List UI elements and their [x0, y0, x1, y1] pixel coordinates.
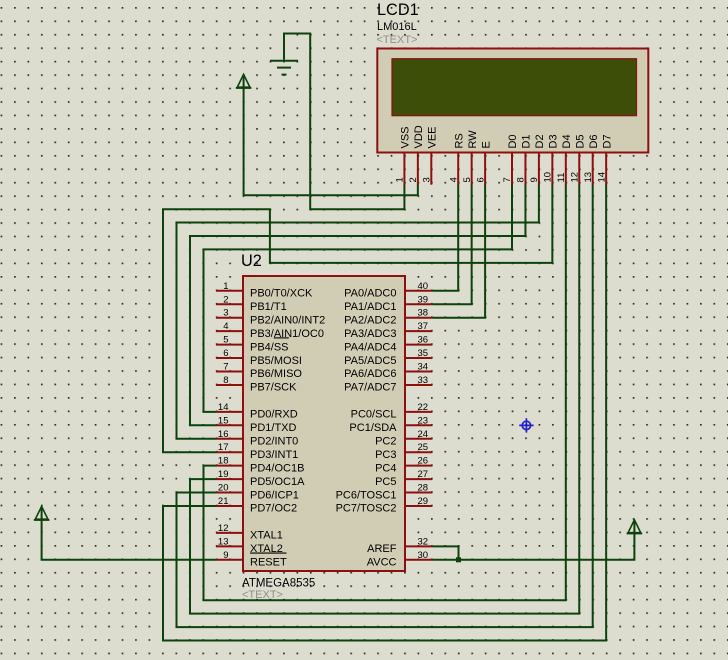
U2 pin 19 (PD5/OC1A)	[216, 469, 305, 488]
U2 pin 39 (PA1/ADC1)	[344, 294, 432, 313]
wire D0: LCD pin7 to PD0	[204, 184, 513, 412]
svg-text:24: 24	[418, 429, 429, 440]
U2 pin 25 (PC3)	[375, 442, 432, 461]
svg-text:16: 16	[218, 429, 229, 440]
wire E: LCD pin6 to PA2	[432, 184, 485, 318]
svg-text:RW: RW	[467, 130, 479, 149]
LCD pin 4 (RS)	[448, 133, 465, 184]
svg-text:<TEXT>: <TEXT>	[242, 589, 283, 601]
LCD pin 6 (E)	[475, 141, 492, 185]
svg-text:PC4: PC4	[375, 462, 396, 474]
LCD pin 14 (D7)	[596, 134, 613, 184]
svg-text:PD0/RXD: PD0/RXD	[250, 409, 298, 421]
svg-text:4: 4	[448, 177, 459, 182]
svg-text:32: 32	[418, 536, 429, 547]
U2 pin 34 (PA6/ADC6)	[344, 362, 432, 381]
U2 pin 24 (PC2)	[375, 429, 432, 448]
LCD pin 3 (VEE)	[422, 126, 439, 184]
U2 pin 16 (PD2/INT0)	[216, 429, 298, 448]
svg-text:1: 1	[223, 281, 228, 292]
svg-text:8: 8	[223, 375, 228, 386]
svg-text:LM016L: LM016L	[377, 21, 417, 33]
svg-text:LCD1: LCD1	[377, 1, 419, 19]
svg-text:22: 22	[418, 402, 429, 413]
svg-text:39: 39	[418, 294, 429, 305]
U2 pin 21 (PD7/OC2)	[216, 496, 297, 515]
U2 pin 6 (PB5/MOSI)	[216, 348, 302, 367]
U2 pin 33 (PA7/ADC7)	[344, 375, 432, 394]
svg-text:21: 21	[218, 496, 229, 507]
wire D5: LCD pin12 to PD5	[190, 184, 579, 613]
svg-text:38: 38	[418, 308, 429, 319]
svg-text:U2: U2	[241, 252, 262, 270]
svg-text:30: 30	[418, 550, 429, 561]
svg-text:PB2/AIN0/INT2: PB2/AIN0/INT2	[250, 314, 325, 326]
LCD pin 8 (D1)	[516, 134, 533, 184]
svg-text:20: 20	[218, 483, 229, 494]
svg-text:29: 29	[418, 496, 429, 507]
op-amp-none: microcontroller U2 ATMEGA8535 body	[243, 276, 405, 571]
LCD pin 5 (RW)	[462, 130, 479, 185]
svg-text:12: 12	[569, 172, 580, 183]
wire D6: LCD pin13 to PD6	[177, 184, 593, 627]
U2 pin 20 (PD6/ICP1)	[216, 483, 299, 502]
svg-text:PD4/OC1B: PD4/OC1B	[250, 462, 304, 474]
wire RESET to power terminal	[42, 520, 216, 560]
U2 pin 28 (PC6/TOSC1)	[336, 483, 433, 502]
U2 pin 14 (PD0/RXD)	[216, 402, 298, 421]
svg-text:AVCC: AVCC	[367, 557, 397, 569]
svg-text:RESET: RESET	[250, 557, 287, 569]
svg-text:10: 10	[543, 172, 554, 183]
junction dot (AREF/AVCC)	[456, 557, 461, 562]
svg-text:VEE: VEE	[427, 126, 439, 148]
U2 pin 29 (PC7/TOSC2)	[336, 496, 433, 515]
LCD pin 1 (VSS)	[395, 126, 412, 184]
svg-text:15: 15	[218, 415, 229, 426]
U2 pin 22 (PC0/SCL)	[351, 402, 433, 421]
U2 pin 3 (PB2/AIN0/INT2)	[216, 308, 325, 327]
U2 pin 7 (PB6/MISO)	[216, 362, 302, 381]
U2 pin 23 (PC1/SDA)	[349, 415, 432, 434]
power terminal (bottom right)	[627, 520, 643, 534]
svg-text:XTAL1: XTAL1	[250, 530, 283, 542]
svg-text:<TEXT>: <TEXT>	[377, 34, 418, 46]
svg-text:D0: D0	[507, 134, 519, 148]
svg-text:7: 7	[223, 362, 228, 373]
svg-text:PC3: PC3	[375, 449, 396, 461]
svg-text:6: 6	[223, 348, 228, 359]
svg-text:26: 26	[418, 456, 429, 467]
svg-text:7: 7	[502, 177, 513, 182]
U2 pin 35 (PA5/ADC5)	[344, 348, 432, 367]
U2 pin 5 (PB4/SS)	[216, 335, 289, 354]
svg-text:PD2/INT0: PD2/INT0	[250, 435, 298, 447]
U2 pin 37 (PA3/ADC3)	[344, 321, 432, 340]
svg-text:D6: D6	[588, 134, 600, 148]
wire D2: LCD pin9 to PD2	[177, 184, 539, 439]
svg-text:6: 6	[475, 177, 486, 182]
svg-text:PC2: PC2	[375, 435, 396, 447]
wire RS: LCD pin4 to PA0	[432, 184, 458, 291]
U2 pin 27 (PC5)	[375, 469, 432, 488]
wire D7: LCD pin14 to PD7	[163, 184, 606, 640]
svg-text:PA4/ADC4: PA4/ADC4	[344, 341, 396, 353]
LCD LCD1 LM016L body	[377, 49, 648, 153]
U2 pin 36 (PA4/ADC4)	[344, 335, 432, 354]
svg-text:PA5/ADC5: PA5/ADC5	[344, 355, 396, 367]
svg-text:11: 11	[556, 173, 567, 183]
U2 pin 30 (AVCC)	[367, 550, 433, 569]
LCD pin 13 (D6)	[583, 134, 600, 184]
power terminal VCC (top left)	[236, 74, 252, 88]
svg-text:PB5/MOSI: PB5/MOSI	[250, 355, 302, 367]
svg-text:1: 1	[395, 177, 406, 182]
svg-text:23: 23	[418, 415, 429, 426]
svg-text:37: 37	[418, 321, 429, 332]
svg-text:28: 28	[418, 483, 429, 494]
svg-text:5: 5	[462, 177, 473, 182]
svg-text:13: 13	[583, 172, 594, 183]
wire AREF to AVCC junction	[432, 546, 458, 559]
svg-text:PC6/TOSC1: PC6/TOSC1	[336, 489, 397, 501]
svg-text:2: 2	[223, 294, 228, 305]
svg-text:9: 9	[223, 550, 228, 561]
U2 pin 26 (PC4)	[375, 456, 432, 475]
svg-text:PD5/OC1A: PD5/OC1A	[250, 476, 305, 488]
svg-text:PC5: PC5	[375, 476, 396, 488]
svg-text:PA2/ADC2: PA2/ADC2	[344, 314, 396, 326]
U2 pin 18 (PD4/OC1B)	[216, 456, 304, 475]
origin marker (blue crosshair)	[519, 418, 533, 432]
svg-text:PB1/T1: PB1/T1	[250, 301, 287, 313]
svg-text:PA3/ADC3: PA3/ADC3	[344, 328, 396, 340]
svg-text:13: 13	[218, 536, 229, 547]
svg-text:E: E	[480, 141, 492, 148]
svg-text:3: 3	[223, 308, 228, 319]
svg-text:PA1/ADC1: PA1/ADC1	[344, 301, 396, 313]
svg-text:PD3/INT1: PD3/INT1	[250, 449, 298, 461]
svg-text:D5: D5	[574, 134, 586, 148]
LCD pin 10 (D3)	[543, 134, 560, 184]
svg-text:D1: D1	[521, 134, 533, 148]
svg-text:18: 18	[218, 456, 229, 467]
svg-text:PB6/MISO: PB6/MISO	[250, 368, 302, 380]
svg-text:PA6/ADC6: PA6/ADC6	[344, 368, 396, 380]
U2 pin 1 (PB0/T0/XCK)	[216, 281, 313, 300]
svg-text:9: 9	[529, 177, 540, 182]
svg-text:3: 3	[422, 177, 433, 182]
wire D1: LCD pin8 to PD1	[190, 184, 525, 425]
svg-text:34: 34	[418, 362, 429, 373]
svg-text:PA0/ADC0: PA0/ADC0	[344, 288, 396, 300]
svg-text:PC1/SDA: PC1/SDA	[349, 422, 397, 434]
svg-text:PD1/TXD: PD1/TXD	[250, 422, 297, 434]
wire AVCC to power terminal (bottom right)	[432, 534, 634, 560]
LCD pin 9 (D2)	[529, 134, 546, 184]
power terminal (bottom left)	[34, 506, 50, 520]
svg-text:14: 14	[596, 172, 607, 183]
svg-text:D4: D4	[561, 134, 573, 148]
svg-text:D2: D2	[534, 134, 546, 148]
svg-text:D7: D7	[601, 134, 613, 148]
svg-text:5: 5	[223, 335, 228, 346]
wire RW: LCD pin5 to PA1	[432, 184, 471, 304]
U2 pin 9 (RESET)	[216, 550, 287, 569]
svg-text:PB0/T0/XCK: PB0/T0/XCK	[250, 288, 313, 300]
wire D3: LCD pin10 to PD3	[163, 184, 552, 452]
U2 pin 38 (PA2/ADC2)	[344, 308, 432, 327]
svg-text:14: 14	[218, 402, 229, 413]
wire VSS: LCD pin1 to ground	[284, 34, 404, 210]
svg-text:PB7/SCK: PB7/SCK	[250, 382, 297, 394]
svg-text:4: 4	[223, 321, 228, 332]
LCD pin 12 (D5)	[569, 134, 586, 184]
U2 pin 17 (PD3/INT1)	[216, 442, 298, 461]
svg-text:ATMEGA8535: ATMEGA8535	[242, 577, 315, 589]
svg-text:33: 33	[418, 375, 429, 386]
U2 pin 15 (PD1/TXD)	[216, 415, 297, 434]
U2 pin 13 (XTAL2)	[216, 536, 283, 555]
svg-text:PD7/OC2: PD7/OC2	[250, 503, 297, 515]
U2 pin 12 (XTAL1)	[216, 523, 283, 542]
svg-text:PC7/TOSC2: PC7/TOSC2	[336, 503, 397, 515]
svg-text:VDD: VDD	[413, 125, 425, 148]
U2 pin 8 (PB7/SCK)	[216, 375, 297, 394]
svg-text:PA7/ADC7: PA7/ADC7	[344, 382, 396, 394]
svg-text:D3: D3	[548, 134, 560, 148]
wire D4: LCD pin11 to PD4	[204, 184, 566, 600]
svg-text:35: 35	[418, 348, 429, 359]
svg-text:27: 27	[418, 469, 429, 480]
LCD pin 7 (D0)	[502, 134, 519, 184]
svg-text:25: 25	[418, 442, 429, 453]
svg-text:19: 19	[218, 469, 229, 480]
wire VDD: LCD pin2 to power rail	[244, 88, 418, 196]
U2 pin 40 (PA0/ADC0)	[344, 281, 432, 300]
svg-text:40: 40	[418, 281, 429, 292]
svg-text:2: 2	[408, 177, 419, 182]
svg-text:PB4/SS: PB4/SS	[250, 341, 289, 353]
svg-text:12: 12	[218, 523, 229, 534]
svg-text:8: 8	[516, 177, 527, 182]
LCD pin 11 (D4)	[556, 134, 573, 184]
U2 pin 32 (AREF)	[367, 536, 432, 555]
svg-text:PD6/ICP1: PD6/ICP1	[250, 489, 299, 501]
svg-text:RS: RS	[453, 133, 465, 148]
ground	[270, 61, 298, 75]
U2 pin 4 (PB3/AIN1/OC0)	[216, 321, 324, 340]
svg-text:AREF: AREF	[367, 543, 397, 555]
svg-text:PC0/SCL: PC0/SCL	[351, 409, 397, 421]
svg-text:17: 17	[218, 442, 229, 453]
svg-text:VSS: VSS	[400, 126, 412, 148]
LCD pin 2 (VDD)	[408, 125, 425, 184]
svg-text:36: 36	[418, 335, 429, 346]
U2 pin 2 (PB1/T1)	[216, 294, 287, 313]
